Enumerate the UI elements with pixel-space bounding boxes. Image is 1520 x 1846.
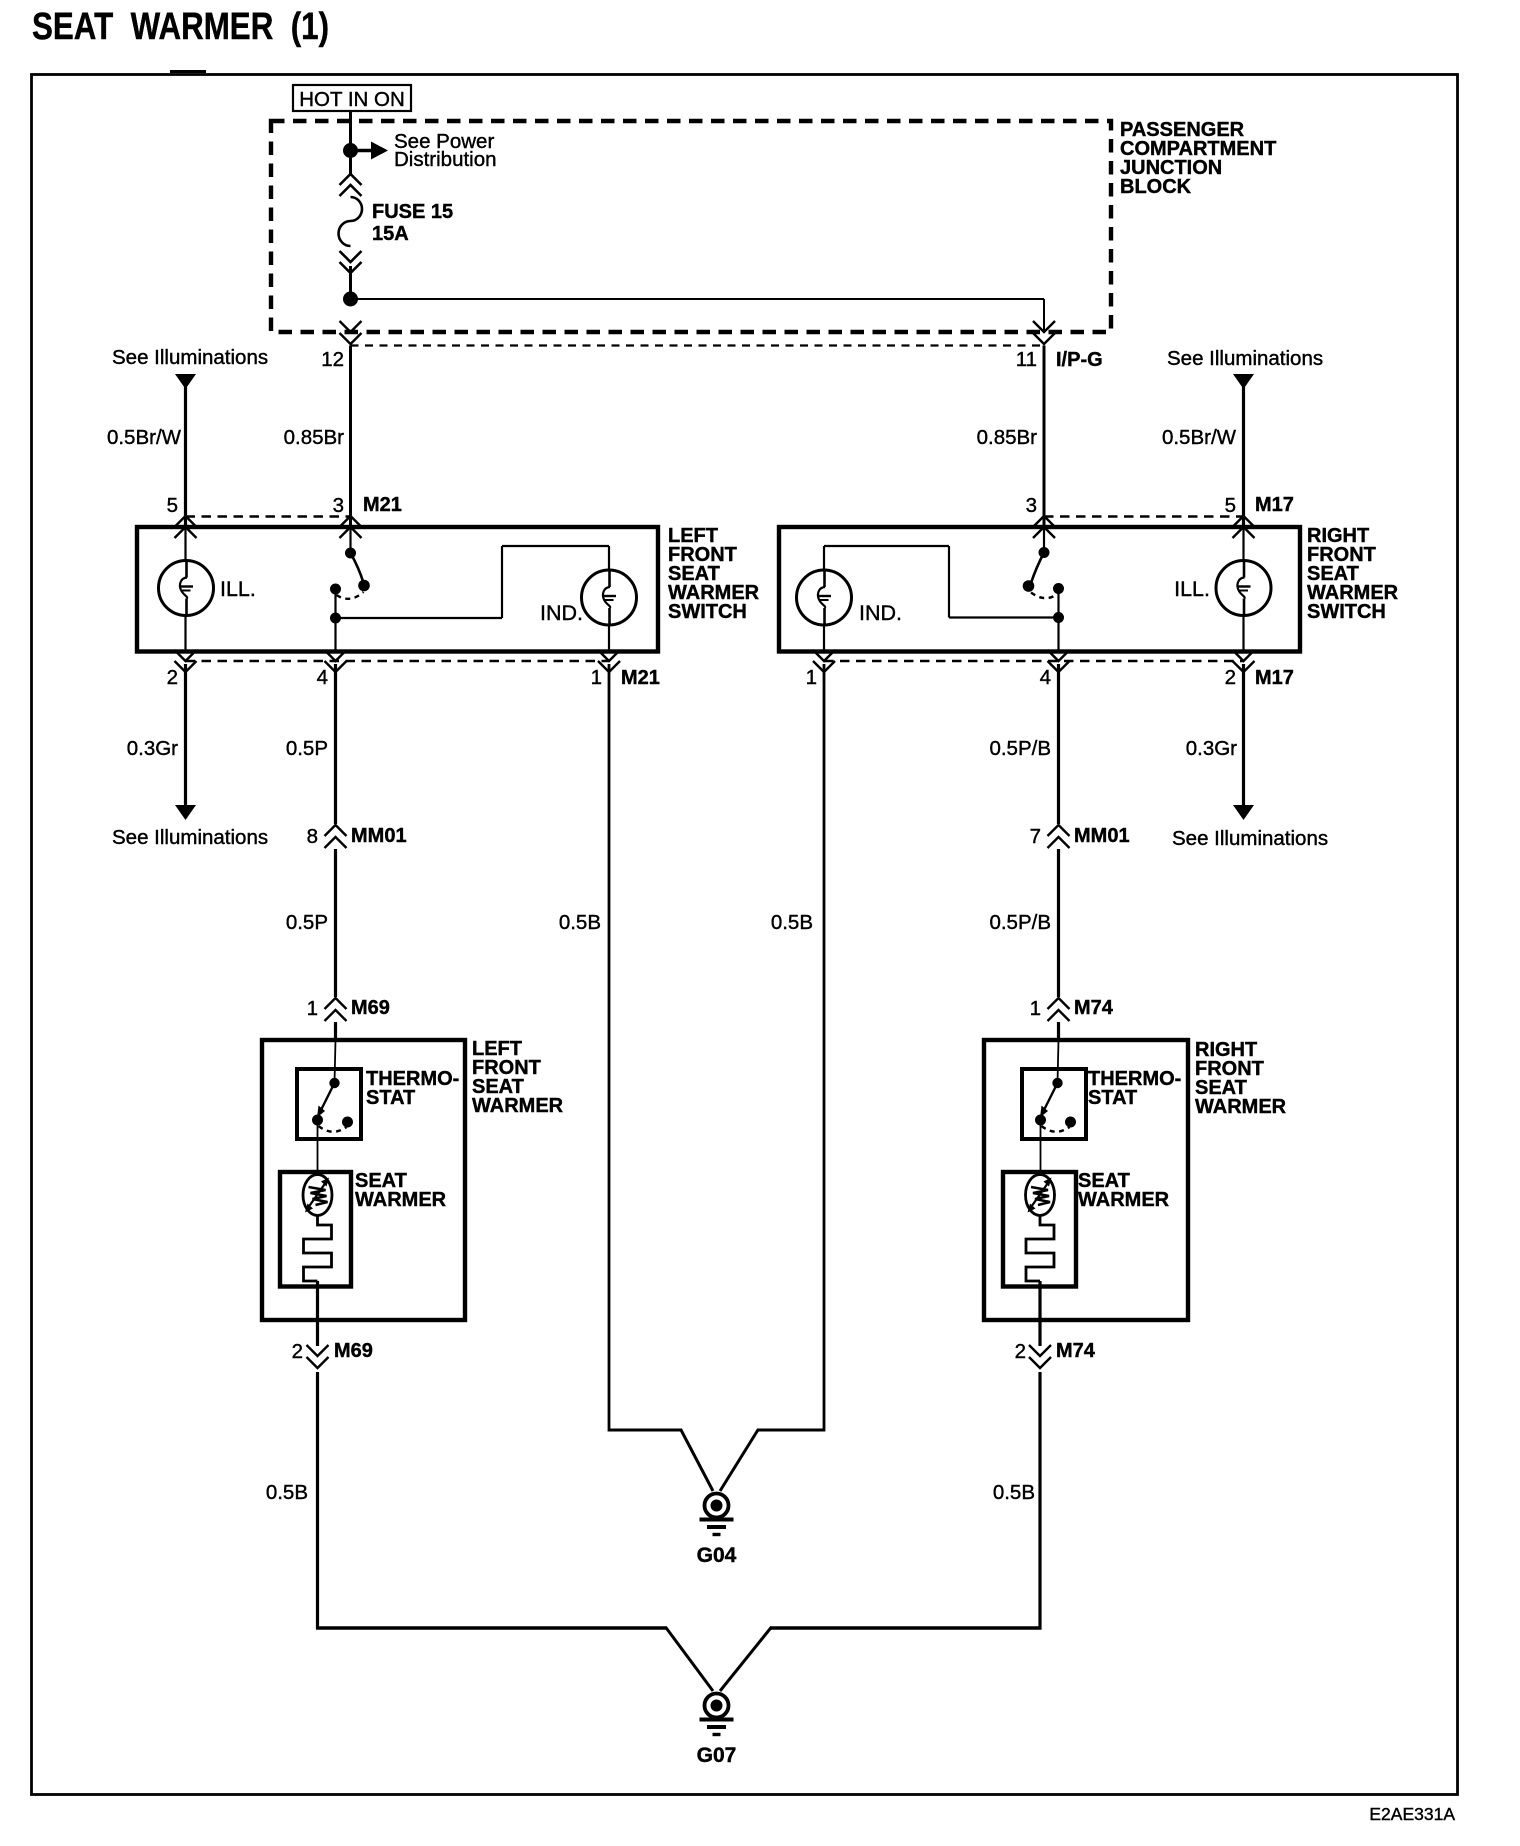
left switch bottom connector dashed line — [186, 660, 610, 662]
wire IND riser vertical — [501, 546, 503, 618]
svg-text:Distribution: Distribution — [394, 148, 497, 171]
svg-text:0.85Br: 0.85Br — [977, 426, 1038, 449]
switch travel arc right — [1031, 593, 1058, 599]
lamp ILL right — [1216, 561, 1271, 616]
pin 5 left connector chevrons — [175, 516, 197, 527]
wire pin4 inside box right — [1057, 618, 1059, 651]
wire into thermostat right — [1058, 1040, 1059, 1083]
wire riser to IND lamp — [502, 545, 609, 547]
wire IND lamp top lead right — [823, 546, 825, 571]
wire junction to IND riser right — [949, 616, 1059, 618]
lamp ILL left — [159, 561, 214, 616]
switch pivot dot left — [345, 548, 356, 559]
svg-text:M21: M21 — [363, 494, 402, 516]
seat warmer thermal sensor right — [1026, 1175, 1055, 1216]
connector M74 pin1 chevrons — [1048, 998, 1070, 1009]
svg-text:MM01: MM01 — [351, 825, 407, 847]
wire into thermostat left — [335, 1040, 336, 1083]
svg-text:1: 1 — [806, 666, 817, 689]
svg-text:0.5P: 0.5P — [286, 911, 328, 934]
svg-text:M74: M74 — [1056, 1340, 1096, 1362]
wire pin5 to ILL lamp — [184, 529, 186, 561]
svg-text:SWITCH: SWITCH — [1307, 601, 1386, 623]
wire 0.5Br/W left — [184, 387, 187, 525]
node HOT IN ON box — [293, 85, 411, 111]
wire 0.5P upper left — [334, 664, 337, 824]
wire pin4 inside box — [334, 618, 336, 650]
svg-text:G04: G04 — [697, 1544, 737, 1567]
wire 0.5B right bottom — [1038, 1372, 1041, 1630]
illumination arrow bottom-right — [1233, 805, 1254, 820]
illumination arrow top-right — [1233, 374, 1254, 389]
wire from HOT IN ON to fuse — [349, 111, 352, 176]
wire junction to IND riser — [336, 617, 503, 619]
svg-text:0.3Gr: 0.3Gr — [1186, 737, 1237, 760]
svg-text:0.3Gr: 0.3Gr — [127, 737, 178, 760]
svg-text:See Illuminations: See Illuminations — [112, 346, 268, 369]
svg-text:M17: M17 — [1255, 667, 1294, 689]
wire thermostat to element right — [1040, 1120, 1042, 1176]
svg-text:M17: M17 — [1255, 494, 1294, 516]
svg-text:0.5B: 0.5B — [993, 1481, 1035, 1504]
svg-text:G07: G07 — [697, 1744, 737, 1767]
svg-text:4: 4 — [1040, 666, 1051, 689]
svg-text:MM01: MM01 — [1074, 825, 1130, 847]
svg-text:12: 12 — [321, 348, 344, 371]
seat warmer heater meander right — [1026, 1216, 1054, 1282]
svg-text:2: 2 — [1225, 666, 1236, 689]
wire 0.5P/B upper right — [1057, 664, 1060, 824]
wire ILL lamp to pin2 — [184, 616, 186, 651]
svg-text:M69: M69 — [334, 1340, 373, 1362]
wire thermostat to element left — [317, 1120, 319, 1176]
pin 4 left connector chevrons — [325, 650, 347, 661]
svg-text:HOT IN ON: HOT IN ON — [299, 88, 405, 111]
svg-text:ILL.: ILL. — [1174, 577, 1210, 601]
svg-text:IND.: IND. — [540, 601, 583, 625]
svg-text:3: 3 — [333, 494, 344, 517]
wire 0.3Gr left — [184, 664, 187, 806]
wire right 0.5B to G04 jog — [757, 1429, 824, 1432]
wire ILL lamp to pin2 right — [1242, 616, 1244, 651]
lamp IND right — [797, 570, 852, 625]
pin 1 right connector chevrons — [813, 650, 835, 661]
wire pin3 to switch pivot right — [1043, 529, 1045, 549]
lamp IND left — [582, 570, 637, 625]
junction dot pin4 left — [330, 613, 341, 624]
wire 0.85Br left (pin12 to switch pin3) — [349, 346, 352, 526]
fuse F15 bottom connector chevrons — [340, 251, 362, 262]
border frame tick — [170, 70, 206, 73]
svg-text:0.5B: 0.5B — [771, 911, 813, 934]
svg-text:0.5P: 0.5P — [286, 737, 328, 760]
switch blade end dot left — [358, 580, 370, 592]
svg-text:4: 4 — [317, 666, 328, 689]
svg-text:STAT: STAT — [1088, 1087, 1137, 1109]
connector pin 11 chevrons — [1033, 321, 1055, 332]
wire pin3 to switch pivot — [349, 529, 351, 549]
wire IND lamp top lead — [608, 546, 610, 571]
pin 3 right connector chevrons — [1033, 516, 1055, 527]
svg-text:1: 1 — [1030, 997, 1041, 1020]
svg-text:2: 2 — [292, 1340, 303, 1363]
wire element to pin2 left — [316, 1281, 319, 1346]
wire contact to junction left — [334, 589, 336, 618]
svg-text:M69: M69 — [351, 997, 390, 1019]
wire 0.3Gr right — [1242, 664, 1245, 806]
see power distribution arrow — [353, 149, 372, 152]
svg-text:5: 5 — [1225, 494, 1236, 517]
fuse F15 top connector chevrons — [340, 174, 362, 185]
svg-text:0.5B: 0.5B — [266, 1481, 308, 1504]
right switch bottom connector dashed line — [824, 660, 1244, 662]
svg-text:0.5Br/W: 0.5Br/W — [107, 426, 182, 449]
wire left diagonal to G04 — [681, 1429, 714, 1491]
svg-text:M74: M74 — [1074, 997, 1114, 1019]
svg-text:WARMER: WARMER — [1078, 1189, 1170, 1211]
svg-text:1: 1 — [591, 666, 602, 689]
wire IND riser vertical right — [948, 546, 950, 618]
svg-text:11: 11 — [1016, 348, 1037, 371]
svg-text:WARMER: WARMER — [355, 1189, 447, 1211]
wire left 0.5B to G04 jog — [609, 1429, 682, 1432]
wire bus down to pin 11 — [1043, 299, 1045, 332]
pin 3 left connector chevrons — [340, 516, 362, 527]
seat warmer element box right — [1003, 1172, 1076, 1287]
wire 0.5B left bottom — [316, 1372, 319, 1630]
switch contact dot left — [330, 584, 341, 595]
left front seat warmer box — [262, 1040, 465, 1320]
wire 0.5P/B lower right — [1057, 849, 1060, 997]
svg-text:M21: M21 — [621, 667, 660, 689]
pin 4 right connector chevrons — [1048, 650, 1070, 661]
passenger compartment junction block (dashed box) — [271, 121, 1111, 332]
wire element to pin2 right — [1038, 1281, 1041, 1346]
svg-text:7: 7 — [1030, 825, 1041, 848]
right front seat warmer switch box — [779, 527, 1300, 652]
connector MM01 pin7 chevrons — [1048, 825, 1070, 836]
svg-text:3: 3 — [1026, 494, 1037, 517]
wire fuse to junction node — [349, 266, 352, 294]
left front seat warmer switch box — [137, 527, 658, 652]
pin 2 left connector chevrons — [175, 650, 197, 661]
wire M69 to warmer box — [334, 1022, 337, 1040]
connector M69 pin1 chevrons — [325, 998, 347, 1009]
junction node below fuse — [343, 292, 358, 307]
svg-text:SWITCH: SWITCH — [668, 601, 747, 623]
fuse F15 element — [339, 197, 362, 246]
svg-text:ILL.: ILL. — [220, 577, 256, 601]
svg-text:0.5P/B: 0.5P/B — [989, 737, 1051, 760]
wire IND lamp to pin1 right — [823, 625, 825, 650]
right switch top connector dashed line — [1044, 515, 1244, 517]
svg-text:2: 2 — [1015, 1340, 1026, 1363]
svg-text:See Illuminations: See Illuminations — [1172, 827, 1328, 850]
junction dot pin4 right — [1053, 612, 1064, 623]
switch blade end dot right — [1023, 580, 1035, 592]
wire 0.5P lower left — [334, 849, 337, 997]
connector M74 pin2 chevrons — [1029, 1345, 1051, 1356]
switch travel arc left — [337, 592, 364, 599]
connector pin 12 chevrons — [340, 321, 362, 332]
junction node at power feed — [343, 143, 358, 158]
connector MM01 pin8 chevrons — [325, 825, 347, 836]
svg-text:IND.: IND. — [859, 601, 902, 625]
svg-text:0.5P/B: 0.5P/B — [989, 911, 1051, 934]
svg-text:FUSE 15: FUSE 15 — [372, 201, 453, 223]
wire 0.5B from left switch pin1 — [608, 664, 611, 1432]
wire right diagonal to G07 — [720, 1627, 772, 1691]
pin 1 left connector chevrons — [598, 650, 620, 661]
seat warmer element box left — [280, 1172, 351, 1287]
svg-text:0.85Br: 0.85Br — [284, 426, 345, 449]
svg-text:See Illuminations: See Illuminations — [1167, 347, 1323, 370]
svg-text:0.5Br/W: 0.5Br/W — [1162, 426, 1237, 449]
wire 0.5B from right switch pin1 — [823, 664, 826, 1432]
wire right to G07 jog — [770, 1626, 1042, 1629]
seat warmer thermal sensor left — [303, 1175, 332, 1216]
svg-text:See Illuminations: See Illuminations — [112, 826, 268, 849]
svg-text:8: 8 — [307, 825, 318, 848]
svg-text:SEAT WARMER (1): SEAT WARMER (1) — [32, 6, 329, 48]
svg-text:0.5B: 0.5B — [559, 911, 601, 934]
wire left diagonal to G07 — [666, 1627, 714, 1691]
svg-text:5: 5 — [167, 494, 178, 517]
wire right diagonal to G04 — [720, 1429, 759, 1491]
left switch top connector dashed line — [186, 515, 351, 517]
svg-text:STAT: STAT — [366, 1087, 415, 1109]
wire pin5 to ILL lamp right — [1242, 529, 1244, 561]
bus wire across junction block — [351, 298, 1045, 300]
ground G04 — [705, 1494, 729, 1518]
wire left to G07 jog — [316, 1626, 667, 1629]
wire riser to IND lamp right — [824, 545, 949, 547]
wire IND lamp to pin1 — [608, 625, 610, 650]
pin 5 right connector chevrons — [1233, 516, 1255, 527]
svg-text:WARMER: WARMER — [472, 1095, 564, 1117]
wire contact to junction right — [1057, 589, 1059, 618]
svg-text:2: 2 — [167, 666, 178, 689]
illumination arrow bottom-left — [175, 805, 196, 820]
ground G07 — [705, 1694, 729, 1718]
svg-text:1: 1 — [307, 997, 318, 1020]
connector M69 pin2 chevrons — [307, 1345, 329, 1356]
thermostat left — [297, 1069, 361, 1139]
svg-text:E2AE331A: E2AE331A — [1369, 1804, 1455, 1824]
right front seat warmer box — [984, 1040, 1188, 1320]
wire M74 to warmer box — [1057, 1022, 1060, 1040]
svg-text:BLOCK: BLOCK — [1120, 176, 1192, 198]
pin 2 right connector chevrons — [1233, 650, 1255, 661]
junction block connector dashed line — [351, 344, 1045, 346]
illumination arrow top-left — [175, 374, 196, 389]
switch pivot dot right — [1039, 547, 1050, 558]
switch contact dot right — [1053, 583, 1064, 594]
seat warmer heater meander left — [304, 1216, 332, 1282]
wire 0.85Br right (pin11 to switch pin3) — [1043, 346, 1046, 526]
svg-text:I/P-G: I/P-G — [1056, 349, 1103, 371]
svg-text:15A: 15A — [372, 223, 409, 245]
switch blade left — [351, 553, 364, 583]
switch blade right — [1031, 553, 1044, 584]
wire 0.5Br/W right — [1242, 387, 1245, 525]
svg-text:WARMER: WARMER — [1195, 1096, 1287, 1118]
thermostat right — [1022, 1069, 1086, 1139]
